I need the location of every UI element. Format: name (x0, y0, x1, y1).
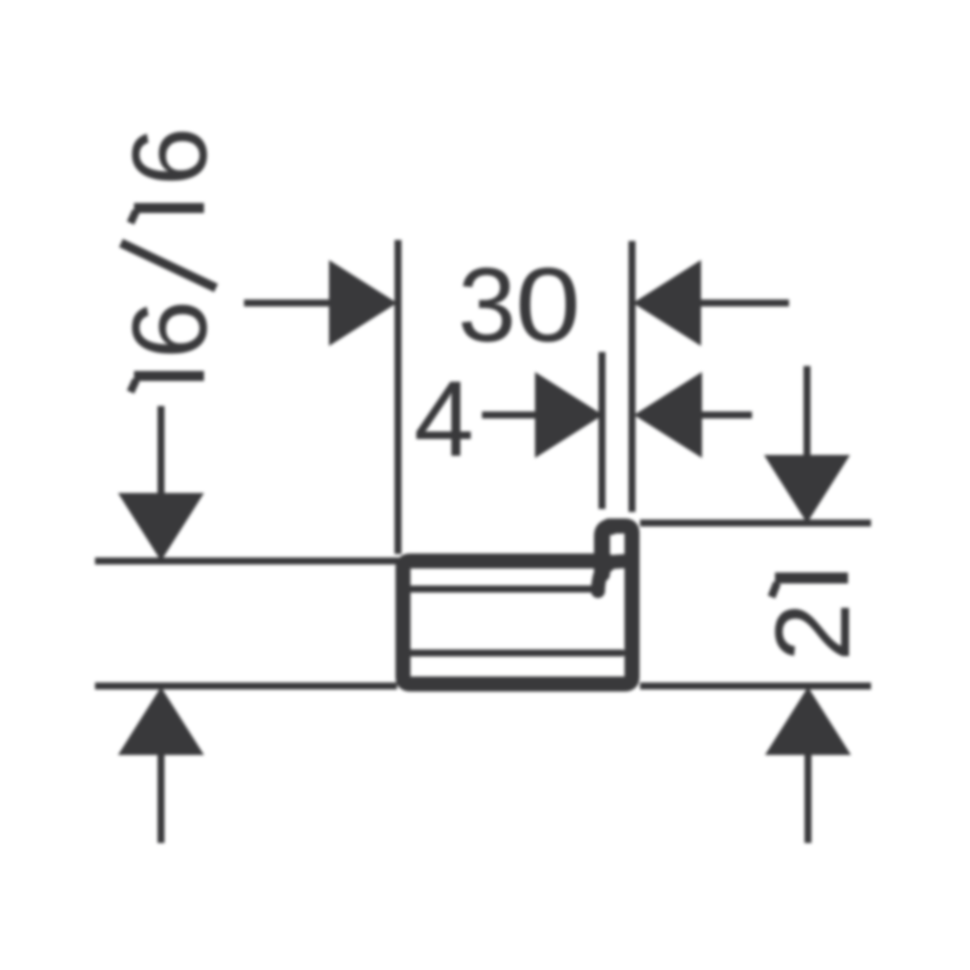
svg-text:0: 0 (515, 246, 580, 364)
svg-text:3: 3 (458, 247, 516, 364)
svg-text:6: 6 (111, 300, 229, 359)
svg-text:2: 2 (754, 603, 872, 662)
svg-text:4: 4 (414, 358, 474, 479)
svg-text:6: 6 (111, 127, 229, 186)
